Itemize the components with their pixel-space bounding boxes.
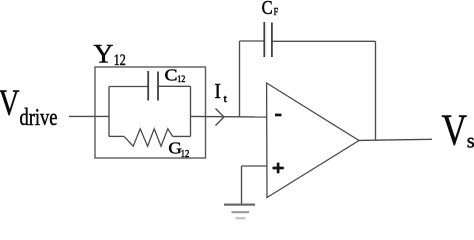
It label bbox=[214, 79, 227, 105]
wire: feedback top left bbox=[240, 40, 265, 42]
wire bottom branch right bbox=[173, 135, 191, 137]
node: right junction bar of parallel branch bbox=[190, 86, 192, 136]
ground bbox=[224, 205, 255, 219]
node: left junction bar of parallel branch bbox=[108, 87, 110, 137]
svg-text:V: V bbox=[442, 105, 468, 154]
svg-text:12: 12 bbox=[181, 149, 190, 160]
svg-text:Y: Y bbox=[94, 40, 114, 69]
op-amp U1 triangle bbox=[267, 83, 359, 198]
svg-text:C: C bbox=[262, 0, 273, 19]
wire: op-amp output bbox=[359, 139, 432, 140]
svg-text:C: C bbox=[165, 66, 178, 85]
node Vs label bbox=[442, 105, 474, 154]
node Vdrive label bbox=[0, 83, 58, 131]
wire Vdrive to Y12 network bbox=[69, 115, 109, 117]
svg-text:12: 12 bbox=[177, 75, 185, 85]
wire: feedback drop to output bbox=[375, 41, 377, 140]
svg-text:12: 12 bbox=[114, 52, 126, 69]
capacitor CF bbox=[264, 22, 272, 57]
C12 value label bbox=[165, 66, 186, 85]
resistor G12 zigzag bbox=[124, 129, 173, 146]
CF value label bbox=[262, 0, 279, 19]
svg-text:t: t bbox=[224, 94, 228, 105]
wire: feedback tap rising from inverting node bbox=[239, 41, 241, 116]
G12 value label bbox=[168, 139, 189, 161]
svg-text:F: F bbox=[274, 7, 279, 18]
wire: network output to op-amp inverting input bbox=[191, 115, 267, 118]
wire top branch left bbox=[109, 86, 148, 88]
wire: drop to ground bbox=[241, 166, 243, 204]
wire bottom branch left bbox=[109, 135, 124, 137]
svg-text:drive: drive bbox=[20, 105, 58, 131]
Y12 admittance box bbox=[95, 67, 206, 158]
svg-text:V: V bbox=[0, 83, 20, 124]
wire: noninverting input bbox=[242, 165, 268, 167]
wire top branch right bbox=[158, 85, 191, 87]
op-amp noninverting input plus sign bbox=[273, 163, 284, 174]
svg-text:s: s bbox=[467, 129, 474, 153]
current arrow It bbox=[216, 109, 225, 126]
capacitor C12 bbox=[148, 71, 158, 101]
op-amp inverting input minus sign bbox=[275, 114, 282, 117]
Y12 label bbox=[94, 40, 126, 70]
wire: feedback top right bbox=[272, 40, 376, 42]
svg-text:I: I bbox=[214, 79, 221, 103]
